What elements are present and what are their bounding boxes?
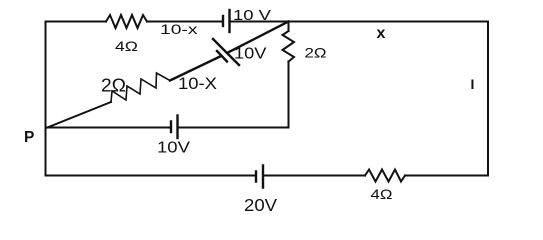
resistor R2 2ohm diagonal sawtooth [111, 73, 170, 102]
wire top side segment right [230, 21, 489, 23]
battery B2 10V tilted : long plate [213, 39, 239, 65]
battery B3 10V middle : long plate [176, 116, 178, 139]
wire diagonal battery to top junction [228, 22, 289, 53]
svg-text:20V: 20V [244, 195, 277, 215]
wire bottom right segment [405, 175, 488, 177]
battery B1 10V top : short plate [222, 16, 224, 26]
wire left vertical side [45, 22, 47, 176]
svg-text:P: P [24, 129, 34, 146]
svg-text:I: I [471, 76, 475, 92]
wire stub junction to resistor R3 [288, 22, 290, 32]
wire bottom middle segment [263, 175, 365, 177]
wire diagonal from node P [46, 102, 111, 128]
battery B2 10V tilted : short plate [217, 51, 227, 62]
wire top between resistor and battery [147, 21, 223, 23]
svg-text:10-X: 10-X [178, 75, 217, 93]
resistor R1 4ohm top [106, 15, 147, 28]
svg-text:10 V: 10 V [233, 7, 271, 24]
svg-text:10V: 10V [234, 45, 267, 62]
svg-text:2Ω: 2Ω [305, 45, 327, 61]
wire riser below 2ohm resistor [288, 62, 290, 128]
svg-text:10-x: 10-x [160, 21, 198, 37]
wire right vertical side [487, 22, 489, 176]
battery B1 10V top : long plate [228, 10, 230, 32]
wire diagonal to tilted battery [170, 57, 220, 81]
svg-text:4Ω: 4Ω [115, 38, 138, 54]
svg-text:x: x [377, 25, 386, 42]
battery B4 20V bottom : short plate [255, 172, 257, 182]
svg-text:4Ω: 4Ω [371, 186, 393, 202]
wire middle horizontal to riser [178, 127, 289, 129]
svg-text:2Ω: 2Ω [101, 76, 126, 96]
resistor R4 4ohm bottom [365, 170, 405, 182]
resistor R3 2ohm vertical [283, 31, 295, 62]
battery B3 10V middle : short plate [170, 122, 172, 133]
battery B4 20V bottom : long plate [262, 166, 264, 188]
wire top side segment left [46, 21, 107, 23]
svg-text:10V: 10V [157, 140, 191, 157]
wire bottom left segment [46, 175, 257, 177]
wire middle horizontal from P [46, 127, 172, 129]
